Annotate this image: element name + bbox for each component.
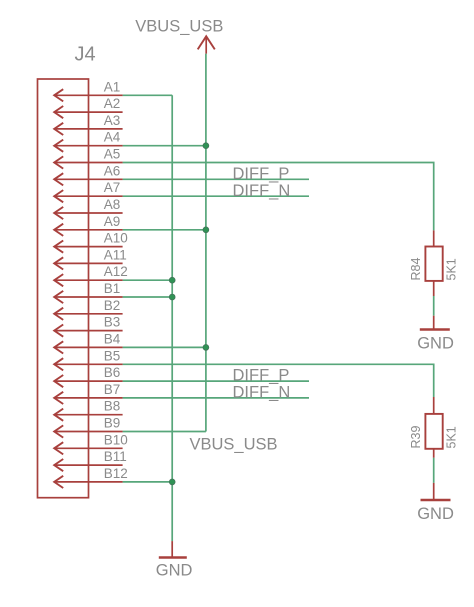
net label VBUS_USB (near pin B9)	[190, 436, 278, 454]
wire GND net: vertical from pin A1 down to ground symbol	[171, 95, 173, 541]
wire CC2 net: from pin B5 right to resistor R39 column	[123, 364, 434, 397]
svg-text:5K1: 5K1	[445, 426, 459, 448]
wire VBUS_USB net: vertical from supply arrow down to B9 corner	[205, 54, 207, 432]
svg-text:B6: B6	[104, 365, 121, 380]
net label DIFF_N (pin B7)	[233, 384, 291, 402]
svg-text:B2: B2	[104, 298, 121, 313]
ground label GND (below R39)	[417, 505, 454, 523]
wire CC1 net: from pin A5 right to resistor R84 column	[123, 163, 434, 231]
pin A10 of connector J4	[54, 231, 128, 253]
svg-text:DIFF_P: DIFF_P	[233, 367, 290, 385]
svg-text:DIFF_N: DIFF_N	[233, 182, 291, 200]
junction node at pin A4	[203, 143, 209, 149]
svg-text:A12: A12	[104, 264, 128, 279]
svg-text:A6: A6	[104, 163, 121, 178]
pin B2 of connector J4	[54, 298, 122, 320]
pin B4 of connector J4	[54, 331, 122, 353]
svg-text:A7: A7	[104, 180, 121, 195]
svg-text:B11: B11	[104, 449, 127, 464]
svg-text:GND: GND	[417, 505, 454, 523]
svg-text:B5: B5	[104, 348, 121, 363]
svg-text:R84: R84	[409, 258, 423, 281]
supply symbol VBUS_USB (up arrow)	[198, 36, 215, 53]
svg-text:R39: R39	[409, 426, 423, 449]
pin A11 of connector J4	[54, 247, 127, 269]
net label DIFF_P (pin B6)	[233, 367, 290, 385]
pin B8 of connector J4	[54, 399, 122, 421]
wire GND net: stub from pin B1	[123, 296, 173, 298]
wire VBUS_USB net: stub from pin A9	[123, 229, 206, 231]
svg-text:A11: A11	[104, 247, 127, 262]
net label DIFF_N (pin A7)	[233, 182, 291, 200]
pin B7 of connector J4	[54, 382, 122, 404]
svg-text:VBUS_USB: VBUS_USB	[190, 436, 278, 454]
pin A9 of connector J4	[54, 214, 122, 236]
pin B10 of connector J4	[54, 432, 128, 454]
connector J4 reference designator "J4"	[75, 43, 96, 65]
junction node at pin A9	[203, 227, 209, 233]
junction node at pin B12	[169, 479, 175, 485]
wire GND net: stub from pin B12	[123, 481, 173, 483]
resistor R84 value label "5K1"	[445, 258, 459, 280]
svg-text:B1: B1	[104, 281, 121, 296]
resistor R84 body	[425, 230, 442, 296]
pin A12 of connector J4	[54, 264, 128, 286]
svg-text:B9: B9	[104, 416, 121, 431]
svg-text:DIFF_N: DIFF_N	[233, 384, 291, 402]
svg-text:B4: B4	[104, 331, 121, 346]
ground symbol GND (bottom left, J4 ground net)	[159, 541, 187, 557]
pin B9 of connector J4	[54, 416, 122, 438]
ground label GND (bottom left)	[156, 562, 193, 580]
svg-text:A9: A9	[104, 214, 121, 229]
svg-text:B12: B12	[104, 466, 128, 481]
pin B12 of connector J4	[54, 466, 128, 488]
pin A6 of connector J4	[54, 163, 122, 185]
net label VBUS_USB (top)	[135, 18, 223, 36]
pin A7 of connector J4	[54, 180, 122, 202]
wire GND net: horizontal from pin A1 to vertical	[123, 94, 173, 96]
svg-text:B3: B3	[104, 315, 121, 330]
wire DIFF_N net at pin A7	[123, 195, 309, 197]
junction node at pin A12	[169, 277, 175, 283]
net label DIFF_P (pin A6)	[233, 165, 290, 183]
svg-text:A5: A5	[104, 147, 121, 162]
junction node at pin B4	[203, 345, 209, 351]
wire GND net: stub from pin A12	[123, 279, 173, 281]
svg-text:A4: A4	[104, 130, 121, 145]
svg-text:A8: A8	[104, 197, 121, 212]
resistor R84 name label "R84"	[409, 258, 423, 281]
pin B11 of connector J4	[54, 449, 127, 471]
resistor R39 value label "5K1"	[445, 426, 459, 448]
svg-text:GND: GND	[156, 562, 193, 580]
svg-text:J4: J4	[75, 43, 96, 65]
pin A3 of connector J4	[54, 113, 122, 135]
svg-text:B8: B8	[104, 399, 121, 414]
wire DIFF_P net at pin A6	[123, 178, 309, 180]
pin A2 of connector J4	[54, 96, 122, 118]
wire VBUS_USB net: stub from pin B4	[123, 346, 206, 348]
pin A4 of connector J4	[54, 130, 122, 152]
pin B3 of connector J4	[54, 315, 122, 337]
svg-text:A2: A2	[104, 96, 121, 111]
wire GND net: R84 bottom to ground symbol	[433, 296, 435, 316]
svg-text:A10: A10	[104, 231, 128, 246]
svg-text:VBUS_USB: VBUS_USB	[135, 18, 223, 36]
pin A1 of connector J4	[54, 79, 122, 101]
wire DIFF_N net at pin B7	[123, 397, 309, 399]
wire VBUS_USB net: stub from pin A4	[123, 145, 206, 147]
pin B1 of connector J4	[54, 281, 122, 303]
wire DIFF_P net at pin B6	[123, 380, 309, 382]
pin B5 of connector J4	[54, 348, 122, 370]
pin A5 of connector J4	[54, 147, 122, 169]
pin A8 of connector J4	[54, 197, 122, 219]
svg-text:DIFF_P: DIFF_P	[233, 165, 290, 183]
connector J4 body	[38, 79, 89, 498]
svg-text:A1: A1	[104, 79, 121, 94]
junction node at pin B1	[169, 294, 175, 300]
wire VBUS_USB net: horizontal from pin B9 to vertical	[123, 431, 206, 433]
svg-text:B10: B10	[104, 432, 128, 447]
wire GND net: R39 bottom to ground symbol	[433, 458, 435, 483]
resistor R39 name label "R39"	[409, 426, 423, 449]
svg-text:GND: GND	[417, 335, 454, 353]
svg-text:5K1: 5K1	[445, 258, 459, 280]
resistor R39 body	[425, 397, 442, 458]
ground symbol GND (below R39)	[421, 483, 451, 500]
svg-text:A3: A3	[104, 113, 121, 128]
svg-text:B7: B7	[104, 382, 121, 397]
ground symbol GND (below R84)	[420, 316, 450, 330]
ground label GND (below R84)	[417, 335, 454, 353]
pin B6 of connector J4	[54, 365, 122, 387]
